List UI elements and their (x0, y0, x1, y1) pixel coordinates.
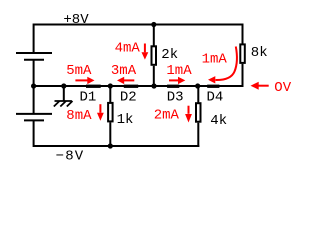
junction node 2k top on +8V rail (151, 22, 156, 27)
current arrow 3mA left (117, 77, 134, 84)
current arrow 1mA right (169, 77, 185, 84)
diode D4 bar (207, 85, 219, 88)
svg-text:D4: D4 (207, 89, 224, 105)
svg-text:D1: D1 (80, 89, 97, 105)
wire middle rail (34, 85, 244, 87)
resistor 8k (240, 44, 245, 63)
ground stub wire (63, 86, 65, 101)
wire 2k branch lower (153, 66, 155, 86)
wire bottom rail -8V (34, 145, 200, 147)
wire left vertical to battery B1 (33, 24, 35, 53)
svg-text:8mA: 8mA (66, 108, 92, 124)
wire right vertical lower (242, 64, 244, 86)
svg-text:4mA: 4mA (115, 41, 141, 57)
svg-text:5mA: 5mA (66, 63, 92, 79)
svg-text:1mA: 1mA (202, 51, 228, 67)
battery B1 long plate (16, 52, 52, 54)
current arrow 2mA down (185, 106, 192, 123)
battery B2 long plate (16, 113, 52, 115)
wire 2k branch upper (153, 25, 155, 47)
battery B2 short plate (24, 119, 44, 121)
svg-text:−8V: −8V (56, 149, 85, 165)
svg-text:+8V: +8V (63, 12, 89, 28)
junction node 2k bottom (151, 83, 156, 88)
current arrow 1mA curved through 8k into D4 (208, 47, 237, 84)
svg-text:2k: 2k (161, 47, 178, 63)
wire top rail +8V (34, 24, 244, 26)
ground symbol (54, 101, 73, 107)
battery B1 short plate (24, 59, 44, 61)
wire 4k branch lower (197, 123, 199, 147)
wire battery B1 to middle rail (33, 60, 35, 86)
resistor 1k (108, 103, 113, 122)
current arrow 8mA down (97, 104, 104, 121)
svg-text:2mA: 2mA (154, 108, 180, 124)
svg-text:8k: 8k (251, 45, 268, 61)
svg-text:4k: 4k (210, 113, 227, 129)
resistor 2k (152, 46, 157, 65)
junction node 4k top (195, 83, 200, 88)
svg-text:1mA: 1mA (166, 63, 192, 79)
node annotation 0V (251, 80, 292, 96)
diode D1 bar (86, 85, 101, 88)
wire right vertical upper (242, 24, 244, 45)
svg-text:1k: 1k (117, 112, 134, 128)
diode D2 bar (124, 85, 138, 88)
svg-text:D3: D3 (167, 89, 184, 105)
wire battery B2 to bottom rail (33, 120, 35, 147)
wire 1k branch upper (109, 86, 111, 103)
wire 1k branch lower (109, 122, 111, 146)
svg-text:3mA: 3mA (111, 63, 137, 79)
junction node left end of middle rail (31, 83, 36, 88)
resistor 4k (196, 103, 201, 122)
wire 4k branch upper (197, 86, 199, 103)
wire middle rail to battery B2 (33, 86, 35, 114)
current arrow 4mA down (142, 44, 149, 60)
current arrow 5mA right (75, 77, 94, 84)
junction node ground (61, 83, 66, 88)
junction node 1k top (108, 83, 113, 88)
junction node 1k bottom on -8V rail (108, 143, 113, 148)
svg-text:OV: OV (274, 80, 291, 96)
svg-text:D2: D2 (120, 89, 137, 105)
diode D3 bar (167, 85, 179, 88)
